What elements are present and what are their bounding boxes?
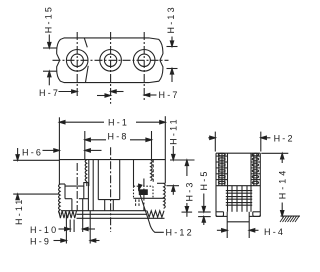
hidden dashes below box [135,199,137,207]
side view outline [216,152,260,154]
serration root line [216,185,260,187]
hole 1 inner circle [71,54,83,66]
svg-text:H-7: H-7 [39,88,60,98]
dimension H-5 [203,194,205,207]
dimension H-3 [185,160,188,166]
front view body top edge [59,159,165,161]
H-12 dashed box [134,185,154,187]
dimension H-15 left [48,35,50,48]
dimension H-14 [261,152,288,154]
middle grid bands [226,190,252,192]
dimension H-11 right [172,146,174,155]
step block bottom lines [65,198,72,200]
inner scallop boundary left [88,160,90,187]
svg-text:H-3: H-3 [185,180,195,201]
svg-text:H-13: H-13 [166,5,176,33]
hole 3 inner circle [138,54,150,66]
svg-text:H-9: H-9 [30,237,51,247]
svg-text:H-5: H-5 [199,169,209,190]
bottom sawtooth left [59,211,77,218]
dark mark inside box [139,189,148,195]
right serration column [250,153,252,186]
front view scalloped left edge [59,184,61,214]
dimension H-4 [217,229,227,231]
ground hatch [281,215,301,217]
dimension H-6 [43,149,54,151]
svg-text:H-12: H-12 [166,228,194,238]
dimension H-1 [60,121,104,123]
front view scalloped right edge [164,183,166,208]
svg-text:H-6: H-6 [22,148,43,158]
column A neck left [104,200,106,211]
side view feet and bottom [216,211,224,213]
svg-text:H-1: H-1 [108,117,129,127]
hole 2 outer circle [100,50,122,72]
dimension H-9 [54,240,66,242]
center tongue [226,212,228,238]
top view plate outline [57,38,163,83]
middle grid verticals [227,186,229,212]
svg-text:H-11: H-11 [14,197,24,225]
hole 1 outer circle [66,50,88,72]
hole 2 centerline front [110,147,112,232]
vertical centerline hole 2 [110,32,112,104]
column A bottom [98,199,119,201]
svg-text:H-10: H-10 [30,225,58,235]
svg-text:H-11: H-11 [169,117,179,145]
extension lines below front view [65,215,67,244]
dimension H-7 right (hole2-hole3) [97,95,110,97]
dimension H-7 left (hole1-hole2) [59,91,77,93]
dimension H-8 [84,131,86,160]
hidden dashed vertical x153 [152,160,154,184]
inner vertical x98 column A left [97,160,99,200]
step line between hole1 and hole2, bottom [86,66,89,83]
front view left step [59,183,65,185]
bottom sawtooth right [147,211,164,218]
inner scalloped band left [85,160,87,182]
dimension H-13 right [171,37,173,47]
hole 2 inner circle [104,54,116,66]
inner scalloped band right [151,160,153,181]
dimension H-2 [214,132,216,152]
neck below block [71,199,73,211]
hole 3 outer circle [133,50,155,72]
inner vertical x120 column A right [119,160,121,200]
middle step block [64,184,66,199]
inner vertical x133.5 [133,160,135,187]
vertical centerline hole 1 [76,32,78,97]
svg-text:H-2: H-2 [274,133,295,143]
step line between hole1 and hole2, top [84,38,87,47]
H-12 leader line [139,192,164,232]
svg-text:H-4: H-4 [264,227,285,237]
front view right step [157,182,165,184]
vertical centerline hole 3 [143,32,145,100]
svg-text:H-14: H-14 [278,168,288,200]
dimension H-10 [59,228,70,230]
dimension H-11 left [13,159,59,161]
svg-text:H-7: H-7 [159,90,180,100]
hole 3 centerline front [143,179,145,211]
horizontal centerline top view [53,59,169,61]
column A neck right [112,200,114,211]
hole 1 centerline front [76,163,78,211]
front view left edge + H-1 extension [58,117,60,184]
svg-text:H-15: H-15 [43,5,53,33]
front view right edge + H-1 extension [164,116,166,183]
bottom band lines [61,210,147,212]
left serration column [218,153,220,186]
inner vertical x93 [92,160,94,211]
svg-text:H-8: H-8 [108,131,129,141]
